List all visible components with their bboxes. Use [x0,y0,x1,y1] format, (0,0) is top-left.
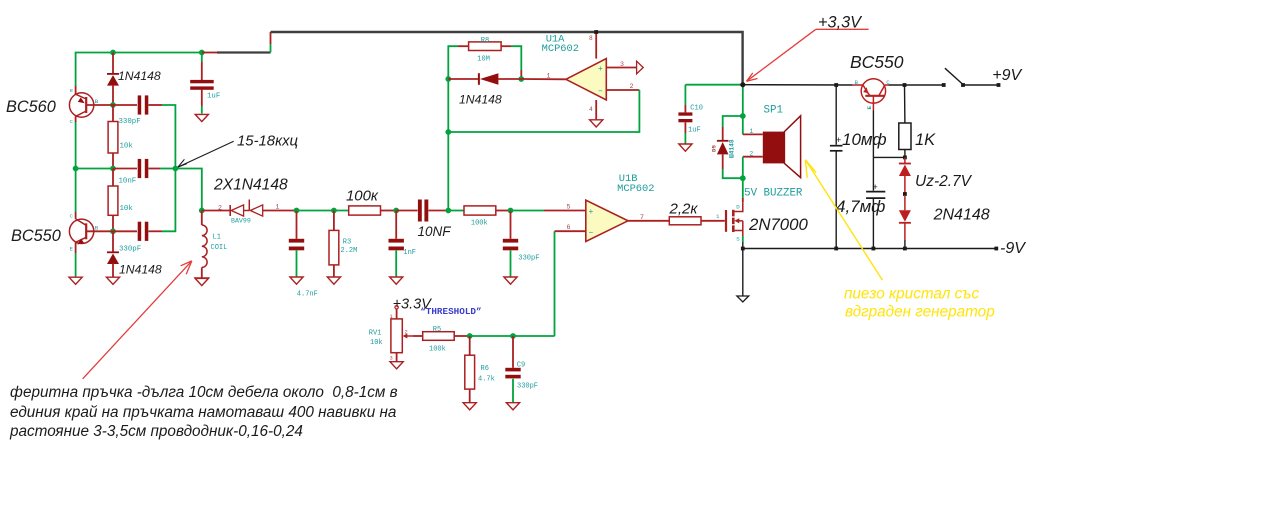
resistor R3 2.2M [329,230,339,265]
wire C10 branch down [684,85,686,105]
svg-text:“THRESHOLD”: “THRESHOLD” [420,306,481,317]
wire C4 right stub [149,230,163,232]
wire BAV99 to node A [263,210,297,212]
ground L1 [195,278,208,285]
ground C6 [390,277,403,284]
wire to D7 [904,195,906,210]
ground C5 [290,277,303,284]
op-amp U1B MCP602 [586,200,628,241]
svg-text:1K: 1K [915,131,936,149]
svg-text:2: 2 [218,204,222,211]
ground C8 [504,277,517,284]
junction node C [445,208,451,214]
wire source to -9V rail [742,242,744,249]
svg-text:2: 2 [630,83,634,90]
wire U1A pin8 to rail [595,32,597,58]
wire 10uF bottom [835,151,837,249]
wire R3 to ground [333,265,335,277]
wire D5 bottom branch [723,169,743,178]
svg-text:BC550: BC550 [11,227,61,245]
wire to oscillator output node [175,169,201,211]
wire 1K bottom [904,150,906,158]
junction top rail / diode column [110,50,116,56]
callout ferrite-rod arrow (red) [83,261,192,379]
junction feedback node [173,166,179,172]
junction zener node [903,156,907,160]
wire R7 to node D [496,210,511,212]
svg-text:4,7мф: 4,7мф [836,197,885,216]
wire base2 to D2 [112,231,114,252]
svg-text:4: 4 [589,106,593,113]
wire buzzer pin2 down [742,157,744,179]
svg-text:Ш4148: Ш4148 [729,139,736,158]
wire step vertical green [270,44,272,53]
wire BC560 collector stub [75,116,77,122]
svg-text:1: 1 [276,203,280,210]
inductor L1 COIL [202,225,207,267]
junction between diodes [903,192,907,196]
op-amp U1A MCP602 [566,59,606,100]
buzzer SP1 [763,116,801,178]
svg-text:100k: 100k [429,346,446,354]
svg-text:B: B [855,79,859,86]
svg-text:3: 3 [390,356,393,362]
capacitor C6 1nF [389,239,404,251]
wire U1A pin4 to ground [595,100,597,119]
wire +3.3V node to BC550 emitter [743,84,853,86]
junction oscillator output node [199,208,205,214]
svg-text:100к: 100к [346,188,379,204]
node +3.3V [740,82,745,87]
svg-text:1uF: 1uF [207,93,220,101]
svg-text:e: e [70,87,74,94]
junction node B [393,208,399,214]
svg-text:3: 3 [620,61,624,68]
wire gray step horizontal [217,51,271,53]
diode BAV99 (2X1N4148) [230,200,263,217]
ground C9 [506,403,519,410]
svg-text:100k: 100k [471,219,488,227]
svg-text:2: 2 [405,330,408,336]
wire mid rail to R2 [112,169,114,187]
svg-text:4.7k: 4.7k [478,375,495,383]
capacitor C1 1uF [190,80,214,90]
wire -9V rail [743,248,997,250]
svg-text:-9V: -9V [1000,240,1026,257]
capacitor C2 330pF [138,95,149,114]
wire gray top rail to +3.3V node [271,32,743,85]
wire R8 right stub [501,45,511,47]
ground U1A [590,120,603,127]
svg-text:330pF: 330pF [119,245,141,253]
wire R1 to mid rail [112,153,114,169]
svg-text:1N4148: 1N4148 [118,69,161,83]
wire to C9 [512,336,514,368]
wire base to C2 [113,104,137,106]
svg-text:растояние 3-3,5см провдодник-0: растояние 3-3,5см провдодник-0,16-0,24 [9,423,303,440]
resistor R9 2.2k [669,217,701,225]
svg-text:S: S [736,236,740,243]
wire R4 to node B [381,210,397,212]
wire 10uF top [835,85,837,145]
wire node A to C5 [296,211,298,239]
wire +3.3V node to C10 branch [685,84,742,86]
resistor R6 4.7k [465,355,475,389]
wire top rail [76,53,202,87]
ground C10 [679,144,692,151]
svg-text:+: + [836,135,841,145]
svg-text:COIL: COIL [211,244,228,252]
junction BC560 base node [110,102,116,108]
wire BC560 emitter stub [75,86,77,94]
svg-text:2N4148: 2N4148 [933,207,990,224]
svg-text:феритна пръчка -дълга 10см деб: феритна пръчка -дълга 10см дебела около … [10,384,398,401]
wire C7 to node C [429,210,449,212]
wire buzzer pin2 [743,156,763,158]
svg-text:−: − [589,229,594,238]
wire U1B pin6 [555,230,586,232]
wire BC550 collector stub [75,212,77,219]
transistor Q1 BC560 [69,93,93,117]
wire RV1 wiper to R5 [413,335,423,337]
terminal +9V [997,83,1001,87]
svg-text:R8: R8 [481,37,489,45]
wire C8 to ground [510,250,512,276]
svg-text:BAV99: BAV99 [231,217,251,224]
wire threshold net to U1B [513,335,555,337]
junction 1K branch [903,83,907,87]
svg-text:R5: R5 [433,326,441,334]
capacitor C12 4,7мф [866,182,885,198]
wire feedback loop [448,90,639,132]
svg-text:330pF: 330pF [517,383,538,391]
svg-text:10k: 10k [120,205,134,213]
ground RV1 [390,362,403,369]
junction node D [508,208,514,214]
switch SW1 lever [945,68,963,84]
wire D5 anode stub [722,154,724,169]
svg-text:2: 2 [750,150,754,157]
wire R8 to diode node [511,46,521,70]
svg-text:R3: R3 [343,239,351,247]
capacitor C11 10мф [830,135,843,151]
diode D3 1N4148 (feedback) [479,73,499,85]
wire C10 to ground [684,133,686,144]
svg-text:+: + [598,65,603,74]
wire BC550 base [86,230,113,232]
svg-text:c: c [70,118,74,125]
switch contact right [961,83,965,87]
svg-text:10k: 10k [120,143,134,151]
junction rail / Q3 source [741,247,745,251]
diode D7 1N4148 (lower, cathode down) [899,210,911,223]
svg-text:10M: 10M [477,56,490,64]
wire U1B pin7 output [628,220,669,222]
wire R5 to threshold node [454,335,470,337]
resistor R8 10M [469,42,502,51]
junction buzzer top / D5 [740,113,746,119]
junction rail / 4.7uF [872,247,876,251]
resistor R1 10k [108,122,118,154]
wire rail to ground [742,249,744,296]
wire node to L1 [201,211,203,226]
junction threshold node 2 [510,333,516,339]
capacitor C3 10nF [138,159,149,178]
diode D6 1N4148 (upper, cathode up) [899,164,911,177]
svg-text:5V BUZZER: 5V BUZZER [744,187,803,199]
svg-text:c: c [70,213,74,220]
wire C1 bottom stub [201,90,203,107]
resistor R10 1K [899,123,911,150]
potentiometer RV1 10k [391,319,413,353]
wire base to zener node [873,156,905,158]
wire D1 to base node [112,85,114,105]
callout 15-18кхц arrow [178,141,234,167]
wire base to R1 [112,105,114,122]
wire C2 right stub [149,104,163,106]
wire D6 to D7 [904,176,906,193]
junction threshold node 1 [467,333,473,339]
wire mid rail to C3 [113,168,137,170]
svg-text:1N4148: 1N4148 [459,93,502,107]
wire U1A pin3 [606,67,636,69]
switch contact left [942,83,946,87]
junction mid rail / column [110,166,116,172]
svg-text:4.7nF: 4.7nF [297,291,318,299]
wire threshold net [470,335,513,337]
wire to R6 [469,336,471,355]
svg-text:330pF: 330pF [518,254,539,262]
wire BC560 base [86,104,113,106]
wire D5 top branch [723,116,743,127]
transistor Q3 2N7000 MOSFET [726,202,743,236]
wire D7 to rail [904,240,906,249]
wire C2 to right vertical [162,105,175,169]
wire R8 left stub [458,45,469,47]
wire R9 to Q3 gate [701,220,725,222]
svg-text:2N7000: 2N7000 [748,215,808,234]
wire left vertical lower [75,169,77,213]
wire to D6 [904,157,906,163]
wire node to BAV99 [202,210,230,212]
svg-text:+: + [589,208,594,217]
junction D3 anode node [518,76,524,82]
callout +3,3V arrow [747,29,869,81]
capacitor C8 330pF [503,239,518,251]
wire base down [872,111,874,158]
wire R6 to ground [469,389,471,402]
svg-text:L1: L1 [213,234,221,242]
wire step vertical red [270,32,272,44]
resistor R5 100k [423,332,455,341]
junction feedback loop [445,129,451,135]
transistor Q2 BC550 [69,219,93,245]
svg-text:10nF: 10nF [119,178,137,186]
wire U1B pin5 stub [544,210,586,212]
svg-text:D: D [736,203,740,210]
svg-text:15-18кхц: 15-18кхц [237,134,298,150]
transistor Q4 BC550 (regulator) [852,79,888,111]
ground [195,278,208,285]
capacitor C5 4.7nF [289,239,304,251]
ground R3 [327,277,340,284]
wire C10 bottom stub [684,122,686,133]
junction node A [294,208,300,214]
diode D1 1N4148 (top) [107,74,119,86]
wire node B to C7 [396,210,417,212]
svg-text:BC550: BC550 [850,52,904,72]
wire U1A pin2 [606,89,639,91]
junction rail / 10uF [834,247,838,251]
svg-text:8: 8 [589,35,593,42]
resistor R4 100k [349,206,381,215]
svg-text:10k: 10k [370,339,383,347]
svg-text:1: 1 [750,128,754,135]
svg-text:1: 1 [716,213,720,220]
svg-text:7: 7 [640,214,644,221]
wire node D to U1B [511,210,545,212]
junction rail / zener [903,247,907,251]
wire BC550 emitter stub [75,242,77,253]
svg-text:E: E [866,106,873,110]
wire junction to C1 [201,53,203,63]
wire RV1 to ground [396,353,398,362]
capacitor C4 330pF [138,222,149,241]
wire C5 to ground [296,250,298,276]
ground (black) [737,296,749,302]
capacitor C9 330pF [505,368,520,379]
capacitor C10 1uF [678,112,692,122]
svg-text:10NF: 10NF [418,224,452,239]
svg-text:C9: C9 [517,361,525,369]
svg-text:пиезо кристал със: пиезо кристал със [844,286,979,303]
svg-text:2X1N4148: 2X1N4148 [213,177,288,194]
wire switch to +9V [963,84,999,86]
ground [106,277,119,284]
wire C1 top stub [201,62,203,80]
diode D2 1N4148 (bottom) [107,252,119,264]
svg-text:5: 5 [567,204,571,211]
svg-text:1N4148: 1N4148 [119,263,162,277]
wire node A to R4 [297,210,349,212]
svg-text:MCP602: MCP602 [542,43,579,55]
ground R6 [463,403,476,410]
junction buzzer bottom / D5 [740,175,746,181]
svg-text:+: + [873,182,878,192]
svg-text:E: E [70,245,74,252]
svg-text:единия край на пръчката намота: единия край на пръчката намотаваш 400 на… [10,404,396,421]
wire node C up to R8 [448,46,458,210]
svg-text:R6: R6 [481,365,489,373]
terminal -9V [994,247,998,251]
svg-text:RV1: RV1 [369,329,382,337]
wire mid rail left [76,168,113,170]
svg-text:2,2к: 2,2к [669,201,699,218]
svg-text:BC560: BC560 [6,98,56,116]
wire C1 to ground [201,106,203,114]
svg-text:MCP602: MCP602 [617,183,654,195]
wire source green stub [742,236,744,242]
junction top rail / C1 [199,50,205,56]
resistor R7 100k [464,206,496,215]
junction feedback / D3 [445,76,451,82]
diode D5 Ш4148 [717,141,729,155]
wire to ground [75,253,77,277]
wire C3 right stub [149,168,161,170]
svg-text:вдграден генератор: вдграден генератор [845,304,995,321]
svg-text:+3,3V: +3,3V [818,14,863,32]
ground C1 [195,114,208,121]
wire rail to D1 [112,53,114,74]
wire stub to D3 node [520,70,522,79]
ground [69,277,82,284]
wire 1K top [904,85,906,123]
wire C6 to ground [395,250,397,276]
svg-text:+9V: +9V [992,67,1022,84]
wire node B to C6 [395,211,397,239]
wire 4.7uF to rail [872,198,874,248]
svg-text:1uF: 1uF [688,126,701,134]
wire buzzer pin1 [743,133,763,135]
svg-text:330pF: 330pF [119,118,141,126]
wire C10 top stub [684,105,686,112]
junction node A / R3 [331,208,337,214]
resistor R2 10k [108,186,118,215]
wire R2 to base2 node [112,215,114,231]
junction 10uF branch [834,83,838,87]
wire C4 to right vertical [162,169,175,232]
wire left vertical upper [75,122,77,169]
svg-text:10мф: 10мф [842,130,887,149]
wire node C to R7 [448,210,464,212]
svg-text:2.2M: 2.2M [341,247,358,255]
svg-text:C10: C10 [690,104,703,112]
annotation arrow piezo (yellow) [805,160,882,280]
wire D7 down [904,223,906,240]
svg-text:1nF: 1nF [403,249,416,257]
svg-text:−: − [598,88,603,97]
svg-text:D5: D5 [711,145,718,152]
junction mid rail left [73,166,79,172]
wire base2 to C4 [113,230,137,232]
wire to 4.7uF [872,157,874,190]
wire D3 anode side [498,78,521,80]
wire C3 to junction [160,168,175,170]
junction pin8 / gray rail [594,30,598,34]
svg-text:Uz-2.7V: Uz-2.7V [915,173,973,190]
wire C9 to ground [512,379,514,403]
svg-text:1: 1 [547,72,551,79]
junction BC550 base node [110,228,116,234]
pin 3 no-connect arrow [637,61,644,74]
wire D3 cathode side [448,78,479,80]
svg-text:SP1: SP1 [764,105,783,117]
wire D5 cathode stub [722,127,724,141]
wire drain stub [742,198,744,203]
svg-text:6: 6 [567,224,571,231]
wire +3.3V to RV1 [396,309,398,319]
wire node to step [202,52,217,54]
wire pin6 to threshold net [554,231,556,336]
wire collector to switch [888,84,943,86]
supply +3.3V pin circle [395,306,398,309]
wire D2 to ground [112,263,114,277]
wire L1 to ground [201,267,203,278]
capacitor C7 10NF [418,200,428,222]
wire to U1A input [521,78,566,80]
wire node down to buzzer [742,85,744,116]
wire to Q3 drain [742,178,744,198]
